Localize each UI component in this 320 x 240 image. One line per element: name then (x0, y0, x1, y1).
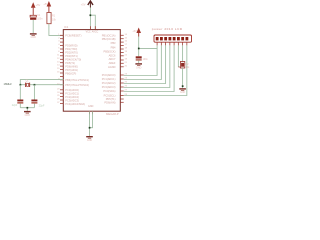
svg-text:+5V: +5V (81, 3, 86, 7)
wire XTAL2 lower (20, 84, 63, 86)
svg-text:PC2(ADC2): PC2(ADC2) (65, 95, 79, 99)
svg-text:PC0(ADC0): PC0(ADC0) (65, 88, 79, 92)
ground G6 (179, 88, 186, 94)
svg-text:PD3(INT1): PD3(INT1) (65, 54, 78, 58)
svg-text:GND: GND (180, 91, 186, 94)
svg-text:PD0(RXD): PD0(RXD) (65, 43, 77, 47)
svg-text:PD2(INT0): PD2(INT0) (65, 50, 78, 54)
svg-text:IC1: IC1 (64, 25, 69, 29)
svg-text:PB3: PB3 (111, 41, 116, 45)
ground stem (26, 108, 28, 111)
wire VCC/AVCC (89, 8, 91, 30)
wire C1 to ground (32, 20, 34, 33)
power +5V P4 (LCD) (132, 28, 141, 37)
IC top pin stubs (VCC AVCC) (90, 26, 95, 29)
wire LCD pin3 to IC (124, 45, 166, 83)
svg-text:power 2010 LCD: power 2010 LCD (152, 27, 183, 31)
svg-text:+5V: +5V (36, 3, 41, 7)
capacitor C3 (31, 100, 45, 108)
wire LCD pin8 to IC (124, 45, 187, 95)
node A junction (20, 84, 22, 86)
svg-text:+5V: +5V (132, 30, 137, 33)
IC right pin stubs (120, 35, 123, 102)
LCD header pin stubs (157, 42, 187, 45)
svg-text:PC3(ADC3): PC3(ADC3) (65, 98, 79, 102)
svg-text:AREF: AREF (109, 61, 116, 65)
ground G5 (135, 63, 142, 69)
svg-text:PC1(ADC1): PC1(ADC1) (102, 77, 116, 81)
crystal Q1 (25, 81, 30, 87)
junction (138, 48, 140, 50)
svg-text:PB1(OC1A): PB1(OC1A) (102, 33, 116, 37)
svg-text:PC3(ADC3): PC3(ADC3) (102, 85, 116, 89)
svg-text:22pF: 22pF (12, 104, 18, 107)
svg-text:+5V: +5V (43, 2, 48, 6)
wire XTAL1 upper (20, 80, 63, 85)
wire LCD pin7 to trimmer top (182, 45, 184, 61)
svg-text:ADC7: ADC7 (109, 57, 116, 61)
svg-text:16MHz: 16MHz (4, 82, 13, 86)
svg-text:MEGA8-P: MEGA8-P (106, 112, 119, 116)
junction (182, 85, 184, 87)
capacitor C2 (12, 100, 23, 107)
resistor R1 (47, 13, 57, 24)
ground G3 (24, 111, 31, 117)
ground G1 (30, 33, 37, 39)
svg-text:100n: 100n (37, 18, 43, 21)
junction (90, 14, 92, 16)
svg-text:PB7(XTAL2/TOSC2): PB7(XTAL2/TOSC2) (65, 83, 89, 87)
svg-text:GND: GND (136, 66, 142, 69)
svg-text:PC6(/RESET): PC6(/RESET) (65, 33, 81, 37)
junction (89, 127, 91, 129)
node B junction (34, 84, 36, 86)
svg-text:22pF: 22pF (39, 103, 45, 107)
svg-text:PC4(ADC4/SDA): PC4(ADC4/SDA) (65, 102, 85, 106)
wire LCD pin5 to IC (124, 45, 174, 91)
wire IC AGND down (90, 111, 93, 128)
IC bottom pin stubs (GND AGND) (90, 111, 93, 114)
svg-text:PB0(ICP): PB0(ICP) (65, 71, 76, 75)
IC left pin labels (65, 33, 89, 105)
junction (27, 107, 29, 109)
wire trimmer to ground (182, 68, 184, 88)
svg-text:PD4(XCK/T0): PD4(XCK/T0) (65, 57, 81, 61)
ground G4 (86, 136, 93, 142)
svg-text:GND: GND (88, 105, 94, 108)
svg-text:PC2(ADC2): PC2(ADC2) (102, 81, 116, 85)
svg-text:PD7(AIN1): PD7(AIN1) (65, 68, 78, 72)
capacitor C5 (136, 56, 149, 61)
wire C5 down (138, 61, 140, 64)
svg-text:GND: GND (25, 114, 31, 117)
svg-text:GND: GND (87, 139, 93, 142)
IC right pin labels (102, 33, 116, 104)
svg-text:PB5(SCK): PB5(SCK) (104, 50, 116, 54)
power +5V P2 (43, 1, 51, 13)
svg-text:AGND: AGND (108, 65, 116, 69)
svg-text:PD6(AIN0): PD6(AIN0) (65, 64, 78, 68)
svg-text:PC0(ADC0): PC0(ADC0) (102, 73, 116, 77)
svg-text:PB6(XTAL1/TOSC1): PB6(XTAL1/TOSC1) (65, 78, 89, 82)
svg-text:PC4(SDA): PC4(SDA) (103, 89, 115, 93)
svg-text:PD1(TXD): PD1(TXD) (65, 47, 77, 51)
wire LCD pin6 to trimmer wiper (177, 45, 179, 67)
left pin numbers (57, 34, 60, 104)
IC left pin stubs (60, 35, 63, 103)
LCD header JP1 (154, 35, 192, 42)
wire LCD pin2 to IC (124, 45, 162, 79)
svg-text:PD5(T1): PD5(T1) (65, 61, 75, 65)
svg-text:PC1(ADC1): PC1(ADC1) (65, 92, 79, 96)
wire C3 down (33, 104, 35, 108)
svg-text:PD6(AIN): PD6(AIN) (104, 100, 115, 104)
wire node A down (19, 85, 21, 100)
svg-text:AVCC: AVCC (92, 31, 99, 34)
capacitor C1 (30, 14, 43, 20)
power +5V P1 (31, 2, 41, 15)
wire node B down (33, 85, 35, 100)
svg-text:GND: GND (31, 36, 37, 39)
wire LCD pin1b to IC (124, 48, 157, 75)
trimmer R2 (180, 62, 190, 70)
IC IC1 MEGA8-P box (63, 25, 120, 116)
svg-text:100n: 100n (143, 59, 149, 61)
svg-text:PD5(T1): PD5(T1) (106, 97, 116, 101)
wire IC GND down (89, 111, 91, 136)
wire junction to LCD pin1 (139, 45, 157, 48)
wire LCD pin4 to IC (124, 45, 170, 87)
wire P4 down to junction (138, 37, 140, 57)
wire joining caps (20, 107, 34, 109)
IC inner top/bottom pin names (86, 31, 99, 108)
power +5V P3 (VCC top of IC) (81, 1, 93, 8)
svg-text:PC5(SCL): PC5(SCL) (104, 93, 116, 97)
svg-text:PB2(OC1B): PB2(OC1B) (102, 37, 116, 41)
svg-text:ADC6: ADC6 (109, 53, 116, 57)
wire R1 to RESET pin (49, 24, 63, 36)
svg-text:VCC: VCC (86, 31, 91, 34)
right pin numbers (125, 34, 128, 96)
svg-text:PB4: PB4 (111, 46, 116, 50)
wire C2 down (19, 104, 21, 108)
